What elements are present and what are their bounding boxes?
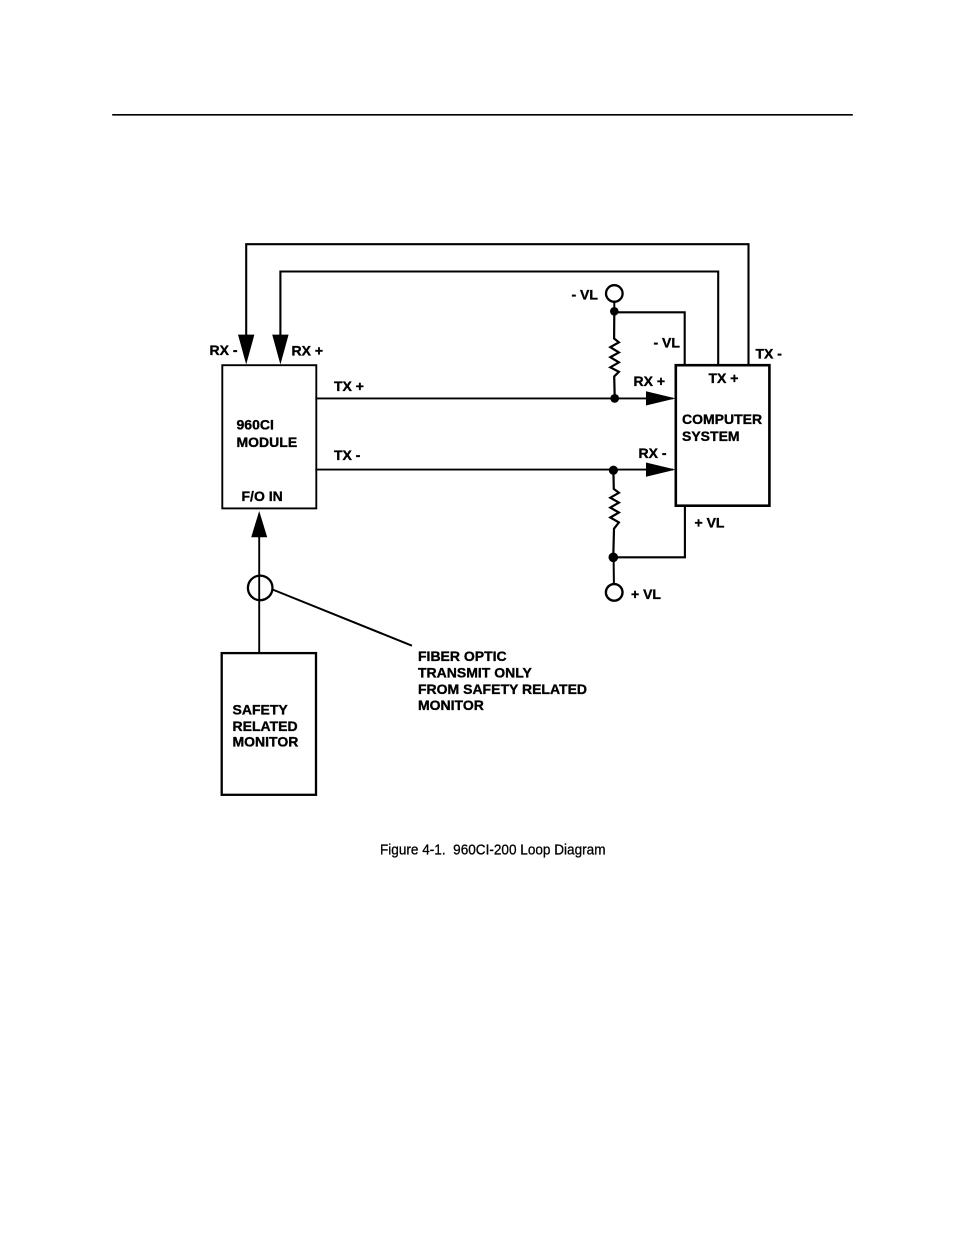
- svg-text:COMPUTER: COMPUTER: [682, 411, 762, 427]
- junction node on TX+ wire: [610, 394, 619, 403]
- leader line to note: [273, 590, 412, 646]
- svg-text:960CI: 960CI: [237, 417, 274, 433]
- resistor lower (between TX- wire and +VL rail): [610, 471, 619, 556]
- arrowhead RX- (down into 960CI): [238, 335, 254, 365]
- svg-text:TX +: TX +: [709, 370, 739, 386]
- wire terminal to junction: [613, 302, 615, 312]
- svg-text:+ VL: + VL: [695, 514, 725, 530]
- wire TX- (960CI to computer RX-): [316, 469, 672, 471]
- terminal -VL: [606, 285, 623, 302]
- svg-text:+ VL: + VL: [631, 586, 661, 602]
- svg-text:- VL: - VL: [572, 287, 599, 303]
- svg-text:RX +: RX +: [292, 343, 324, 359]
- wire -VL branch to computer top: [614, 312, 684, 365]
- svg-text:MODULE: MODULE: [237, 434, 298, 450]
- terminal +VL: [606, 584, 623, 601]
- box 960CI MODULE: [222, 365, 316, 508]
- svg-text:TX -: TX -: [756, 346, 783, 362]
- svg-text:FROM SAFETY RELATED: FROM SAFETY RELATED: [418, 681, 587, 697]
- svg-text:SYSTEM: SYSTEM: [682, 428, 740, 444]
- wire outer loop (RX-) : from computer TX- up, across top, down to 960CI RX- arrow: [246, 244, 748, 365]
- svg-text:FIBER OPTIC: FIBER OPTIC: [418, 648, 507, 664]
- resistor upper (between -VL junction and TX+ wire): [610, 313, 619, 397]
- wire +VL rail to computer bottom: [613, 506, 685, 558]
- arrowhead RX- into computer: [646, 463, 676, 477]
- svg-text:TRANSMIT ONLY: TRANSMIT ONLY: [418, 664, 532, 680]
- svg-text:MONITOR: MONITOR: [233, 734, 299, 750]
- box SAFETY RELATED MONITOR: [222, 653, 316, 795]
- box COMPUTER SYSTEM: [676, 365, 770, 506]
- wire inner loop (RX+) : from computer top, across, down to 960CI RX+ arrow: [280, 272, 718, 366]
- svg-text:RX -: RX -: [639, 445, 667, 461]
- svg-text:Figure 4-1. 960CI-200 Loop Di: Figure 4-1. 960CI-200 Loop Diagram: [380, 842, 606, 859]
- junction node on TX- wire: [609, 466, 618, 475]
- wire TX+ (960CI to computer RX+): [316, 397, 672, 399]
- junction node below -VL terminal: [610, 307, 619, 316]
- wire F/O IN fiber link (monitor to 960CI): [258, 537, 260, 653]
- arrowhead RX+ (down into 960CI): [272, 335, 288, 365]
- page top rule: [113, 114, 852, 116]
- svg-text:SAFETY: SAFETY: [233, 701, 289, 717]
- svg-text:TX +: TX +: [334, 378, 364, 394]
- svg-text:F/O IN: F/O IN: [242, 488, 283, 504]
- svg-text:RX +: RX +: [634, 373, 666, 389]
- wire junction to +VL terminal: [613, 558, 615, 584]
- svg-text:RX -: RX -: [210, 342, 238, 358]
- junction node lower (+VL rail): [609, 553, 619, 563]
- arrowhead F/O IN (up into 960CI): [251, 511, 267, 537]
- svg-text:RELATED: RELATED: [233, 718, 298, 734]
- arrowhead RX+ into computer: [646, 391, 676, 405]
- svg-text:TX -: TX -: [334, 447, 361, 463]
- svg-text:- VL: - VL: [654, 334, 681, 350]
- fiber optic connector circle: [248, 576, 273, 601]
- svg-text:MONITOR: MONITOR: [418, 697, 484, 713]
